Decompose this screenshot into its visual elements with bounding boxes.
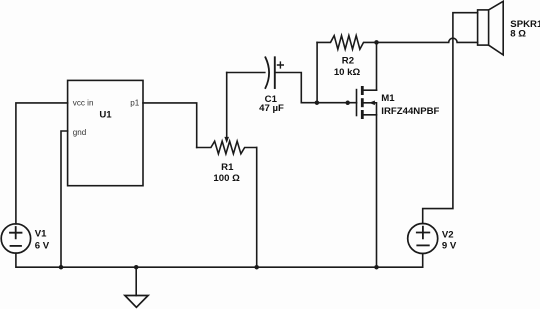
svg-text:47 µF: 47 µF bbox=[259, 103, 284, 114]
junction dot: R2 right / M1 drain node bbox=[374, 40, 379, 45]
junction dot: M1 source on ground rail bbox=[374, 265, 379, 270]
wire: speaker upper pin left and down to V2 positive bbox=[423, 13, 478, 224]
svg-text:8 Ω: 8 Ω bbox=[510, 28, 526, 39]
speaker SPKR1 bbox=[478, 1, 504, 55]
wire: R2 left lead down to gate net bbox=[316, 42, 318, 102]
svg-text:V2: V2 bbox=[442, 229, 454, 240]
wire: bottom ground rail from V1 negative to V2 negative bbox=[16, 253, 423, 267]
wire: M1 source down to ground rail bbox=[376, 115, 378, 267]
capacitor C1 bbox=[265, 57, 283, 88]
svg-text:V1: V1 bbox=[35, 229, 47, 240]
voltage source V2 bbox=[408, 224, 438, 254]
svg-text:M1: M1 bbox=[381, 93, 395, 104]
wire: R1 right terminal down to ground rail bbox=[256, 148, 258, 268]
wire: U1 p1 pin right and down to R1 left terminal bbox=[143, 103, 197, 148]
wire: R1 wiper to C1 left plate bbox=[227, 72, 265, 74]
svg-text:U1: U1 bbox=[99, 110, 112, 121]
wire: V1 positive terminal up and right to U1 vcc in pin bbox=[16, 103, 68, 224]
potentiometer R1 bbox=[197, 73, 257, 154]
junction dot: gate net near M1 bbox=[345, 101, 350, 106]
svg-text:IRFZ44NPBF: IRFZ44NPBF bbox=[381, 106, 439, 117]
MOSFET M1 bbox=[357, 87, 377, 117]
svg-text:gnd: gnd bbox=[73, 128, 87, 137]
svg-text:R2: R2 bbox=[342, 55, 354, 66]
svg-text:vcc in: vcc in bbox=[73, 98, 94, 107]
svg-text:R1: R1 bbox=[221, 162, 234, 173]
junction dot: gnd wire on ground rail bbox=[59, 265, 64, 270]
junction dot: ground tap on rail bbox=[134, 265, 139, 270]
resistor R2 bbox=[317, 36, 376, 50]
wire: U1 gnd pin to ground rail bbox=[61, 131, 68, 267]
svg-text:p1: p1 bbox=[130, 98, 140, 107]
svg-text:100 Ω: 100 Ω bbox=[213, 173, 240, 184]
wire: M1 drain up to drain node bbox=[376, 42, 378, 90]
ground bbox=[125, 267, 148, 307]
svg-text:10 kΩ: 10 kΩ bbox=[334, 67, 361, 78]
wire: drain node right to speaker lower pin with hop over vertical wire bbox=[377, 38, 478, 42]
junction dot: R1 on ground rail bbox=[254, 265, 259, 270]
wire: C1 right plate right, down, and right to M1 gate bbox=[275, 73, 357, 103]
svg-text:9 V: 9 V bbox=[442, 241, 457, 252]
junction dot: R2 left lead on gate net bbox=[315, 100, 320, 105]
svg-text:6 V: 6 V bbox=[35, 240, 50, 251]
IC U1 bbox=[68, 80, 143, 185]
voltage source V1 bbox=[1, 224, 30, 253]
